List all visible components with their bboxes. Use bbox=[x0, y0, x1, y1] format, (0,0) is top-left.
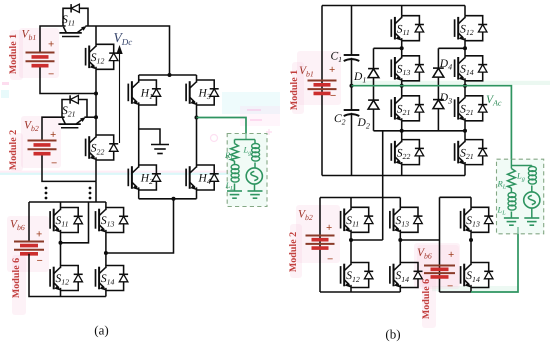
wire m2 output to module6 b bbox=[400, 239, 439, 241]
wire H-bridge top rail bbox=[139, 74, 197, 76]
wire battery Vb2 positive to S21 collector bbox=[42, 117, 62, 140]
wire load b return wire bbox=[471, 227, 518, 292]
wire S11 collector drop (bridge a) bbox=[60, 202, 62, 208]
node right leg lower junction bbox=[463, 129, 467, 133]
wire top dc rail from S11 emitter bbox=[88, 26, 170, 75]
node module1 negative junction bbox=[94, 92, 98, 96]
wire S12 collector drop bbox=[95, 26, 97, 44]
wire load a LL to ground bbox=[234, 184, 236, 192]
transistor S13 (module 6 bridge b, small=True) bbox=[461, 207, 494, 232]
wire m2 bridge top rail bbox=[320, 197, 400, 199]
wire D4 top link bbox=[438, 47, 465, 49]
transistor S11 (module 6 bridge, circuit a) bbox=[50, 208, 83, 233]
svg-text:−: − bbox=[447, 281, 453, 293]
wire H1 collector bbox=[138, 75, 140, 80]
wire S12 collector (bridge a) bbox=[60, 243, 62, 266]
wire S12 emitter to module1 negative node bbox=[95, 69, 97, 93]
diode D3 bbox=[433, 100, 444, 109]
wire S11b emitter bbox=[401, 41, 403, 49]
node m2 bridge left midpoint bbox=[349, 238, 353, 242]
transistor S12 (module 2 bridge b, small=True) bbox=[341, 263, 374, 288]
wire battery Vb2b positive wire bbox=[319, 198, 321, 293]
capacitor C1 bbox=[344, 55, 360, 61]
transistor S11 (module 2 bridge b, small=True) bbox=[341, 207, 374, 232]
svg-text:−: − bbox=[327, 254, 333, 266]
VDc arrow bbox=[116, 45, 122, 143]
wire capacitor bus upper bbox=[351, 6, 353, 56]
svg-text:+: + bbox=[36, 229, 42, 241]
wire load b entry bbox=[510, 159, 512, 168]
wire D1-D2 column bbox=[373, 48, 375, 131]
wire m2 midpoint to drop link bbox=[351, 239, 383, 241]
wire S21b collector bbox=[401, 86, 403, 96]
wire battery Vb6 positive wire bbox=[28, 202, 30, 242]
artifact marks bbox=[211, 110, 273, 142]
resistor RL (load b) bbox=[508, 169, 516, 189]
transistor H4 bbox=[186, 165, 219, 190]
continuation dots right bbox=[89, 187, 92, 200]
wire lower bridge top rail bbox=[29, 201, 106, 203]
svg-text:+: + bbox=[448, 249, 454, 261]
svg-text:−: − bbox=[37, 255, 43, 267]
wire S12b collector bbox=[464, 6, 466, 16]
wire load a source to ground bbox=[254, 184, 256, 191]
wire ground stub bbox=[139, 129, 160, 145]
wire bridge a output to H-bridge bbox=[106, 199, 174, 253]
wire m2 S14 collector bbox=[399, 240, 401, 263]
wire S12b emitter bbox=[464, 41, 466, 49]
ac source grid source (load a) bbox=[246, 168, 262, 184]
transistor S11 (module 1 upper switch, circuit a) bbox=[59, 4, 88, 36]
wire S22b collector bbox=[401, 131, 403, 140]
node bridge a right midpoint bbox=[104, 251, 108, 255]
transistor S21 (circuit b right leg upper, small=True) bbox=[455, 96, 488, 121]
transistor S21 (circuit b left leg, small=True) bbox=[391, 96, 424, 121]
inductor LL (load b) bbox=[508, 193, 516, 211]
wire S13 emitter to midpoint (bridge a) bbox=[105, 233, 107, 254]
diode D2 bbox=[368, 100, 379, 109]
transistor S22 (circuit b left leg, small=True) bbox=[391, 140, 424, 165]
node S11-S13 junction bbox=[400, 46, 404, 50]
wire load a split bar bbox=[235, 139, 256, 141]
wire S22 collector drop bbox=[95, 117, 97, 135]
ac source grid source (load b) bbox=[524, 192, 540, 208]
transistor S11 (circuit b left leg, small=True) bbox=[391, 16, 424, 41]
svg-text:+: + bbox=[326, 222, 332, 234]
svg-text:Module 1: Module 1 bbox=[8, 34, 19, 74]
wire H3-H4 leg bbox=[196, 105, 198, 165]
node left leg output node bbox=[400, 84, 404, 88]
wire battery Vb6 negative wire bbox=[29, 254, 106, 297]
wire battery Vb2 negative rail bbox=[42, 154, 96, 182]
node m2 bridge right midpoint bbox=[398, 238, 402, 242]
transistor S22 (module 2 lower switch, circuit a) bbox=[86, 135, 119, 160]
wire link drop to module2 bridge bbox=[382, 131, 384, 240]
wire output wire b bbox=[352, 86, 512, 160]
svg-text:Module 2: Module 2 bbox=[288, 232, 299, 272]
load box b bbox=[497, 159, 544, 234]
transistor S13 (module 6 bridge, circuit a) bbox=[96, 208, 129, 233]
transistor S12 (module 6 bridge, circuit a) bbox=[50, 266, 83, 291]
wire load a left branch top bbox=[234, 140, 236, 144]
wire m6 S13 collector bbox=[470, 197, 472, 207]
svg-text:−: − bbox=[48, 69, 54, 81]
battery Vb6 (module 6, circuit a) bbox=[14, 242, 44, 254]
wire battery Vb1 negative rail bbox=[40, 67, 96, 94]
load box a bbox=[227, 134, 267, 207]
wire S12 emitter (bridge a) bbox=[60, 291, 62, 297]
transistor H3 bbox=[186, 80, 219, 105]
wire load a right branch top bbox=[254, 140, 256, 144]
wire S13b collector bbox=[401, 48, 403, 56]
wire S14b collector bbox=[464, 48, 466, 56]
wire m2 S12 emitter bbox=[350, 288, 352, 293]
node right leg output node bbox=[463, 84, 467, 88]
wire load a Lg to source bbox=[254, 163, 256, 169]
wire S22b emitter bbox=[401, 165, 403, 176]
transistor S21 (circuit b right leg lower, small=True) bbox=[455, 140, 488, 165]
svg-text:Module 1: Module 1 bbox=[289, 70, 300, 110]
wire output wire to load a bbox=[197, 118, 247, 140]
wire load b split bar bbox=[511, 165, 531, 167]
wire D1 top link bbox=[374, 47, 402, 49]
transistor S13 (circuit b left leg, small=True) bbox=[391, 56, 424, 81]
wire D3-D4 column bbox=[437, 48, 439, 131]
wire S11 emitter to midpoint (bridge a) bbox=[60, 233, 62, 243]
wire battery Vb6b wire upper bbox=[439, 197, 441, 292]
node H-bridge bottom node bbox=[172, 197, 176, 201]
transistor S14 (module 6 bridge, circuit a) bbox=[96, 266, 129, 291]
capacitor C2 bbox=[344, 110, 360, 116]
battery Vb6 (module 6, circuit b) bbox=[424, 266, 455, 277]
node S21-S22 junction bbox=[400, 129, 404, 133]
wire S14b emitter bbox=[464, 81, 466, 86]
svg-text:Module 6: Module 6 bbox=[11, 258, 22, 298]
node S12-S14 junction bbox=[463, 46, 467, 50]
ground H-bridge ground bbox=[151, 145, 169, 154]
wire S21 upper emitter (right leg) bbox=[464, 121, 466, 131]
wire S11b collector bbox=[401, 6, 403, 16]
wire m2 S12 collector bbox=[350, 240, 352, 263]
resistor RL (load a) bbox=[231, 144, 239, 162]
transistor H2 bbox=[128, 165, 161, 190]
wire S14 emitter (bridge a) bbox=[105, 291, 107, 297]
battery Vb1 (module 1, circuit a) bbox=[26, 53, 55, 66]
battery Vb1 (module 1, circuit b) bbox=[308, 81, 337, 94]
wire left dc wire b bbox=[321, 6, 323, 176]
wire m6 S14 emitter bbox=[470, 288, 472, 293]
wire load a RL to LL bbox=[234, 161, 236, 165]
node dc bus top node bbox=[168, 73, 172, 77]
wire S13b emitter bbox=[401, 81, 403, 86]
ground load a left ground bbox=[227, 191, 242, 198]
wire m2 S13 collector bbox=[399, 198, 401, 208]
wire H-bridge bottom rail bbox=[139, 198, 197, 200]
wire H1-H2 leg bbox=[138, 105, 140, 165]
wire H4 emitter bbox=[196, 190, 198, 199]
wire m2 S11 collector bbox=[350, 198, 352, 208]
wire lower cross link b bbox=[374, 130, 466, 132]
wire load b source to ground bbox=[531, 208, 533, 218]
ground load b left ground bbox=[504, 218, 519, 225]
diode D4 bbox=[433, 68, 444, 77]
transistor S14 (circuit b right leg, small=True) bbox=[455, 56, 488, 81]
ground load b right ground bbox=[524, 218, 539, 225]
wire m2 S14 emitter bbox=[399, 288, 401, 293]
svg-text:(b): (b) bbox=[385, 327, 400, 342]
transistor S12 (circuit b right leg, small=True) bbox=[455, 16, 488, 41]
wire m6 bottom rail bbox=[440, 291, 472, 293]
svg-text:Module 2: Module 2 bbox=[8, 130, 19, 170]
battery Vb2 (module 2, circuit b) bbox=[306, 236, 335, 249]
transistor S14 (module 2 bridge b, small=True) bbox=[390, 263, 423, 288]
inductor Lg (load a) bbox=[252, 144, 260, 162]
diode D1 bbox=[368, 69, 379, 78]
wire top rail b bbox=[322, 5, 465, 7]
wire load b right branch top bbox=[531, 166, 533, 167]
wire m2 S13 emitter bbox=[399, 232, 401, 240]
node output node A bbox=[195, 116, 199, 120]
wire H2 emitter bbox=[138, 190, 140, 199]
node module2 chain junction bbox=[94, 115, 98, 119]
wire m6 S13 emitter bbox=[470, 232, 472, 240]
transistor H1 bbox=[128, 80, 161, 105]
wire bus module2 to lower bridge bbox=[95, 181, 97, 202]
node m6 midpoint bbox=[469, 238, 473, 242]
transistor S21 (module 2 upper switch, circuit a) bbox=[58, 95, 87, 127]
node bridge a left midpoint bbox=[59, 241, 63, 245]
wire S14 collector (bridge a) bbox=[105, 253, 107, 266]
svg-text:+: + bbox=[50, 129, 56, 141]
wire bus module1 to module2 bbox=[95, 94, 97, 118]
wire mid rail b bbox=[322, 175, 465, 177]
svg-text:(a): (a) bbox=[94, 323, 108, 338]
node capacitor midpoint node bbox=[350, 84, 354, 88]
wire m6 top rail bbox=[440, 196, 472, 198]
battery Vb2 (module 2, circuit a) bbox=[28, 141, 57, 154]
wire S21 emitter to bus bbox=[87, 116, 96, 118]
ground load a right ground bbox=[248, 191, 263, 198]
transistor S13 (module 2 bridge b, small=True) bbox=[390, 207, 423, 232]
wire S13 collector drop (bridge a) bbox=[105, 202, 107, 208]
wire S22 emitter / battery Vb2 negative rail bbox=[95, 160, 97, 181]
transistor S12 (module 1 lower switch, circuit a) bbox=[86, 44, 119, 69]
svg-text:+: + bbox=[329, 64, 335, 76]
wire m2 bridge bottom rail bbox=[320, 291, 400, 293]
wire m6 S14 collector bbox=[470, 240, 472, 263]
wire left midpoint to top rail link bbox=[61, 202, 89, 243]
wire H3 collector bbox=[196, 75, 198, 80]
svg-text:Module 6: Module 6 bbox=[421, 279, 432, 319]
wire capacitor bus middle bbox=[351, 58, 353, 110]
wire load b RL to LL bbox=[510, 188, 512, 193]
svg-text:−: − bbox=[330, 90, 336, 102]
wire battery Vb1 positive to S11 collector bbox=[40, 26, 63, 53]
svg-text:+: + bbox=[48, 39, 54, 51]
wire capacitor bus lower bbox=[351, 113, 353, 176]
wire m2 S11 emitter bbox=[350, 232, 352, 240]
inductor Lg (load b) bbox=[528, 167, 536, 185]
wire load b LL to ground bbox=[510, 212, 512, 219]
svg-text:−: − bbox=[51, 158, 57, 170]
wire S21 lower collector (right leg) bbox=[464, 131, 466, 140]
transistor S14 (module 6 bridge b, small=True) bbox=[461, 263, 494, 288]
wire S21b emitter bbox=[401, 121, 403, 131]
inductor LL (load a) bbox=[231, 165, 239, 183]
wire S21 upper collector (right leg) bbox=[464, 86, 466, 96]
wire S21 lower emitter (right leg) bbox=[464, 165, 466, 176]
wire load b Lg to source bbox=[531, 186, 533, 193]
continuation dots left bbox=[45, 187, 48, 200]
